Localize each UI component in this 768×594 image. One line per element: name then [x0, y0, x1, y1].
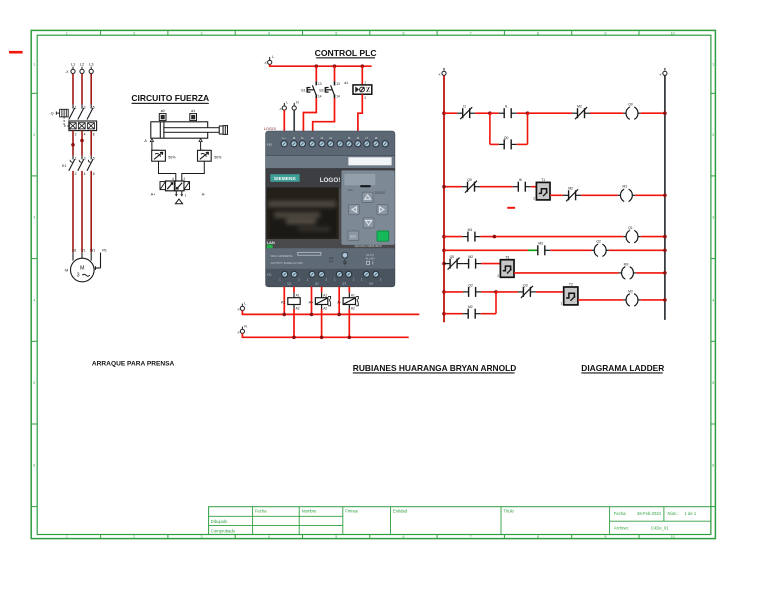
thermal pole numbers 2 4 6: [75, 132, 95, 136]
svg-text:I6: I6: [357, 136, 360, 140]
NO contact M1: [462, 232, 480, 242]
L rail junction Q2: [310, 313, 314, 317]
wire Q3.2 down: [348, 287, 350, 293]
contactor K1 pole 1: [69, 156, 75, 171]
svg-text:A2: A2: [296, 306, 300, 310]
wire pole1 mid: [72, 131, 74, 156]
svg-text:M2: M2: [468, 255, 473, 259]
bottom terminal 1-2 labels: [279, 277, 382, 281]
svg-text:M3: M3: [624, 262, 629, 266]
ladder left rail: [443, 75, 445, 322]
valve 5/2 right chamber: [175, 181, 184, 191]
coil Q1: [623, 230, 640, 242]
rung 1 wire e: [528, 112, 573, 114]
branch vertical right: [527, 113, 529, 144]
wire A+ to N rail: [321, 309, 323, 337]
pipe right to valve: [182, 161, 205, 181]
PLC top terminal screws: [281, 141, 388, 147]
svg-text:S1: S1: [301, 89, 306, 93]
contactor K1 pole 3: [87, 156, 93, 171]
wire N to M: [293, 110, 295, 131]
rung 6 wire d: [536, 291, 564, 293]
exhaust stub left: [175, 191, 178, 197]
branch wire b: [517, 143, 528, 145]
frame inner border: [37, 35, 711, 534]
rod end plate: [219, 126, 223, 134]
N rail junction A-: [348, 336, 352, 340]
rung 3 wire c: [641, 236, 665, 238]
wire K1 to N rail: [293, 309, 295, 337]
terminal L2: [80, 67, 84, 74]
wire Q2.2 down: [321, 287, 323, 293]
svg-text:I8: I8: [375, 136, 378, 140]
svg-text:LAN: LAN: [267, 240, 275, 245]
motor stub V1: [81, 252, 83, 258]
svg-text:Archivo:: Archivo:: [614, 526, 629, 531]
svg-text:6: 6: [403, 31, 405, 35]
junction a1 tap: [361, 64, 365, 68]
coil Q2: [592, 244, 609, 256]
rung 6 wire a: [444, 291, 463, 293]
svg-text:1: 1: [712, 62, 714, 66]
rung 5 wire b: [636, 272, 665, 274]
limit switch a1 glyphs: [356, 87, 370, 92]
coil Q0: [623, 107, 640, 119]
frame left zone ticks: [31, 93, 37, 506]
wire L2 drop: [81, 74, 83, 105]
svg-text:ESC: ESC: [350, 234, 357, 238]
svg-text:1: 1: [561, 301, 563, 305]
svg-text:M2: M2: [468, 305, 473, 309]
svg-text:7: 7: [470, 31, 472, 35]
rung 6 right junction: [663, 298, 667, 302]
svg-text:Q2: Q2: [596, 240, 601, 244]
svg-text:6: 6: [712, 464, 714, 468]
limit switch a1 box: [353, 85, 372, 94]
wire motor lead 3: [90, 171, 92, 252]
A+ coil top lead: [321, 293, 323, 298]
svg-text:5: 5: [712, 381, 714, 385]
svg-text:2: 2: [133, 31, 135, 35]
keypad window: [344, 173, 376, 186]
pushbutton S2: [325, 81, 334, 98]
svg-text:1: 1: [75, 156, 77, 160]
svg-text:N: N: [244, 324, 247, 328]
terminal L3: [89, 67, 93, 74]
svg-text:6: 6: [403, 535, 405, 539]
timer T3 box: [500, 260, 514, 278]
rung 2 wire a: [444, 186, 462, 188]
rung 1 left junction: [442, 111, 446, 115]
svg-text:2: 2: [75, 132, 77, 136]
svg-text:a1: a1: [344, 81, 348, 85]
PLC lower band: [266, 249, 395, 269]
svg-text:3: 3: [84, 156, 86, 160]
svg-text:2: 2: [33, 133, 35, 137]
svg-text:2: 2: [533, 197, 535, 201]
rung 4 left junction: [442, 249, 446, 253]
breaker Q actuator box: [56, 109, 68, 117]
coil M1: [618, 189, 635, 201]
MAC address bar: [298, 252, 321, 255]
underline DIAGRAMA LADDER: [581, 372, 662, 373]
svg-text:Núm.:: Núm.:: [668, 511, 679, 516]
rung 1 wire a: [444, 112, 457, 114]
NO contact M3 rung4: [537, 245, 551, 255]
rung 6 wire b: [481, 291, 496, 293]
svg-text:7: 7: [470, 535, 472, 539]
svg-text:13: 13: [318, 82, 322, 86]
terminal L rail: [240, 304, 244, 311]
svg-text:Q0: Q0: [467, 178, 472, 182]
rung 6 branch junction: [494, 290, 498, 294]
rung 6 left junction: [442, 290, 446, 294]
svg-text:Título: Título: [503, 509, 514, 514]
svg-text:2: 2: [712, 133, 714, 137]
rung 1 wire g: [641, 112, 665, 114]
svg-text:3: 3: [201, 31, 203, 35]
svg-text:Q0: Q0: [450, 255, 455, 259]
svg-text:X10: X10: [267, 143, 273, 147]
A- coil bottom lead: [348, 305, 350, 310]
motor terminal labels U1 V1 W1: [72, 249, 95, 253]
wire motor lead 1: [72, 171, 74, 252]
NO contact M2 rung5: [463, 259, 481, 269]
exhaust stub right: [180, 191, 183, 197]
pipe right down: [200, 142, 202, 151]
NC contact M2 rung1: [572, 107, 590, 119]
svg-text:Q3: Q3: [342, 281, 346, 285]
wire Q1.1 to L rail: [283, 287, 285, 315]
LCD streaks blurred: [268, 201, 336, 231]
breaker Q pole 3: [87, 105, 93, 120]
rung 6 wire out: [578, 299, 623, 301]
motor tilde: [82, 274, 90, 276]
rung 1 wire c: [490, 112, 499, 114]
wire pole3 mid: [90, 131, 92, 156]
N rail wire: [242, 333, 408, 337]
K1 coil top lead: [293, 293, 295, 298]
rung 3 right junction: [663, 235, 667, 239]
rung 7 wire a: [444, 313, 463, 315]
terminal N plc: [292, 103, 296, 110]
button down: [363, 218, 374, 228]
svg-text:Q3: Q3: [523, 283, 528, 287]
rung 2 right junction: [663, 194, 667, 198]
throttle valve right: [198, 150, 212, 161]
NO contact Q0 branch: [499, 139, 517, 149]
svg-text:A1: A1: [296, 293, 300, 297]
rung 2 wire b: [480, 186, 513, 188]
svg-text:T3: T3: [505, 255, 509, 259]
thermal element pole 2: [78, 123, 85, 129]
rung 4 right junction: [663, 249, 667, 253]
svg-text:L: L: [244, 301, 246, 305]
svg-text:5: 5: [33, 381, 35, 385]
svg-text:-Q: -Q: [50, 112, 54, 116]
svg-text:MAC ADDRESS:: MAC ADDRESS:: [271, 254, 294, 258]
breaker Q pole 1: [69, 105, 75, 120]
motor M circle: [71, 258, 95, 282]
rung 3 wire b: [480, 236, 623, 238]
NO contact I1: [499, 108, 517, 118]
coil M2: [623, 294, 640, 306]
terminal L control: [268, 57, 272, 65]
rung 7 left junction: [442, 312, 446, 316]
svg-text:6ED1052-1HB08-0BA8: 6ED1052-1HB08-0BA8: [355, 244, 382, 248]
throttle valve left: [152, 150, 166, 161]
PLC face dark photo area: [266, 168, 395, 248]
L rail wire: [242, 311, 419, 315]
pipe left down: [151, 142, 153, 151]
svg-text:-X: -X: [237, 330, 240, 334]
rung 7 vertical to rung 6: [495, 292, 497, 314]
LCD screen: [266, 187, 338, 239]
svg-text:3: 3: [33, 216, 35, 220]
svg-text:I3: I3: [321, 136, 324, 140]
rung 6 wire e: [641, 299, 665, 301]
timer T2 box: [564, 287, 578, 305]
rung 2 wire out: [550, 194, 563, 196]
svg-text:9: 9: [604, 535, 606, 539]
A+ valve pilot marks: [328, 296, 331, 305]
solenoid coil A-: [343, 298, 355, 305]
valve solenoid right: [184, 182, 190, 190]
svg-text:Entidad: Entidad: [393, 509, 408, 514]
contactor numbers 2 4 6: [75, 172, 95, 176]
svg-text:50%: 50%: [168, 155, 176, 159]
svg-text:Q2: Q2: [315, 281, 319, 285]
rung 3 wire a: [444, 236, 462, 238]
rung 2 wire d: [581, 194, 618, 196]
wire S1 to I1: [303, 98, 316, 131]
wire bus to S2: [334, 66, 336, 81]
ground symbol: [343, 259, 347, 265]
frame outer border: [31, 30, 715, 538]
N rail junction A+: [320, 336, 324, 340]
svg-text:C4De_01: C4De_01: [651, 526, 669, 531]
svg-text:LOGO!: LOGO!: [264, 127, 276, 131]
svg-text:M2: M2: [628, 289, 633, 293]
breaker linkage dashed: [64, 117, 69, 126]
svg-text:Q2: Q2: [468, 283, 473, 287]
K1 coil bottom lead: [293, 305, 295, 310]
svg-text:CONTROL PLC: CONTROL PLC: [315, 48, 377, 58]
svg-text:A2: A2: [351, 306, 355, 310]
terminal L1: [71, 67, 75, 74]
NO contact I6: [513, 182, 531, 192]
wire L3 drop: [90, 74, 92, 105]
underline RUBIANES: [353, 372, 515, 373]
rung 1 wire d: [517, 112, 528, 114]
svg-text:Q0: Q0: [504, 136, 509, 140]
title block labels: [211, 509, 697, 534]
svg-text:5: 5: [335, 535, 337, 539]
rung 4 wire a: [444, 249, 528, 251]
svg-text:L2: L2: [80, 61, 85, 66]
svg-text:I1: I1: [301, 136, 304, 140]
wire pole2 mid: [81, 131, 83, 156]
valve 5/2 left chamber: [166, 181, 175, 191]
svg-text:5: 5: [93, 156, 95, 160]
rung 2 wire c: [531, 186, 537, 188]
rung 2 wire e: [635, 194, 665, 196]
svg-text:K1: K1: [62, 164, 67, 168]
rung 1 wire b: [475, 112, 490, 114]
ladder right rail: [664, 75, 666, 320]
control supply bus: [270, 64, 372, 66]
svg-text:6: 6: [33, 464, 35, 468]
rung 3 left junction: [442, 235, 446, 239]
svg-text:RUBIANES HUARANGA BRYAN ARNOLD: RUBIANES HUARANGA BRYAN ARNOLD: [353, 363, 516, 373]
L rail junction Q3: [337, 313, 341, 317]
svg-text:1: 1: [185, 193, 187, 197]
svg-text:6: 6: [93, 172, 95, 176]
cylinder body: [151, 122, 208, 138]
svg-text:13: 13: [336, 82, 340, 86]
NC contact Q0 rung2: [462, 181, 480, 193]
svg-text:L: L: [272, 55, 274, 59]
svg-text:S2: S2: [319, 89, 324, 93]
FE screw: [342, 252, 348, 258]
relay Q labels: [287, 281, 373, 285]
svg-text:9: 9: [604, 31, 606, 35]
piston rod: [164, 128, 219, 133]
terminal N rail: [240, 327, 244, 334]
svg-text:3: 3: [84, 106, 86, 110]
svg-text:/E LAN: /E LAN: [366, 257, 375, 261]
svg-text:L1: L1: [71, 61, 76, 66]
S1 terminal numbers: [318, 82, 322, 98]
solenoid coil A+: [315, 298, 327, 305]
PLC top terminal labels: [282, 136, 377, 140]
svg-text:M2: M2: [568, 187, 573, 191]
bottom screw slots: [284, 273, 378, 275]
title block outline: [209, 507, 711, 535]
svg-text:10: 10: [671, 31, 675, 35]
wire bus to S1: [315, 66, 317, 81]
svg-text:K1: K1: [281, 300, 286, 304]
svg-text:-X: -X: [279, 107, 282, 111]
svg-text:3: 3: [712, 216, 714, 220]
svg-text:4: 4: [712, 298, 714, 302]
svg-text:1: 1: [33, 62, 35, 66]
PE conductor: [95, 253, 100, 270]
branch vertical left: [489, 113, 491, 144]
svg-text:Q1: Q1: [287, 281, 291, 285]
svg-text:LOGO!: LOGO!: [320, 177, 341, 184]
valve solenoid left: [160, 182, 166, 190]
N rail junction K1: [292, 336, 296, 340]
junction pole1: [71, 143, 75, 147]
svg-text:I2: I2: [311, 136, 314, 140]
svg-text:X12: X12: [329, 256, 334, 260]
wire Q3.1 to L rail: [338, 287, 340, 315]
LCD inner: [270, 202, 336, 238]
cylinder piston: [159, 122, 161, 138]
svg-text:W1: W1: [90, 249, 95, 253]
thermal element pole 1: [69, 123, 76, 129]
rung 3 mid junction: [493, 235, 497, 239]
svg-text:A+: A+: [151, 193, 157, 197]
thermal overload box: [69, 121, 97, 131]
junction pole2: [80, 139, 84, 143]
svg-text:I5: I5: [348, 136, 351, 140]
svg-text:1 de 1: 1 de 1: [685, 511, 697, 516]
svg-text:I6: I6: [519, 178, 522, 182]
wire Q1.2 down: [293, 287, 295, 293]
svg-text:50%: 50%: [214, 155, 222, 159]
svg-text:1: 1: [364, 81, 366, 85]
svg-text:24RCE: 24RCE: [375, 191, 387, 195]
svg-text:X11: X11: [267, 273, 272, 277]
tiny network icon: [367, 261, 373, 264]
S2 terminal numbers: [336, 82, 340, 98]
sensor a1: [190, 114, 197, 121]
coil M3: [619, 267, 636, 279]
rung 7 wire b: [481, 313, 496, 315]
svg-text:-M: -M: [64, 269, 68, 273]
rung 4 wire b: [550, 249, 591, 251]
svg-text:2: 2: [75, 172, 77, 176]
svg-text:L3: L3: [89, 61, 94, 66]
rung 1 wire f: [590, 112, 623, 114]
sensor a0: [159, 114, 166, 121]
frame zone number labels: [33, 31, 714, 539]
svg-text:2: 2: [364, 96, 366, 100]
keypad panel: [341, 170, 394, 245]
title underline: [132, 103, 209, 104]
svg-text:3F4: 3F4: [329, 259, 334, 263]
svg-text:4: 4: [33, 298, 35, 302]
wire Q2.1 to L rail: [311, 287, 313, 315]
svg-text:3: 3: [201, 535, 203, 539]
PLC face gradient top: [266, 168, 395, 188]
svg-text:A+: A+: [309, 300, 315, 304]
svg-text:10: 10: [671, 535, 675, 539]
keypad window slot: [360, 185, 371, 187]
svg-text:1: 1: [66, 535, 68, 539]
center tiny marks: [329, 256, 334, 264]
rung 1 branch junction left: [488, 111, 492, 115]
svg-text:4: 4: [268, 31, 270, 35]
rung 5 right junction: [663, 271, 667, 275]
terminal labels L1 L2 L3: [71, 61, 94, 66]
title block horizontal dividers: [209, 516, 711, 525]
svg-text:PE: PE: [102, 249, 107, 253]
L rail junction Q1: [283, 313, 287, 317]
svg-text:M2: M2: [577, 105, 582, 109]
svg-text:Q0: Q0: [628, 103, 633, 107]
svg-text:26-Feb-2024: 26-Feb-2024: [637, 511, 662, 516]
button left: [349, 204, 360, 214]
svg-text:I1: I1: [505, 105, 508, 109]
NC contact Q3: [518, 286, 536, 298]
wire bus to a1 switch: [361, 66, 363, 85]
A- valve pilot marks: [356, 296, 359, 305]
ladder right terminal: [663, 68, 667, 76]
breaker pole numbers 1 3 5: [75, 106, 95, 110]
valve chamber divider: [174, 181, 176, 191]
right tiny texts: [366, 253, 375, 261]
svg-text:CIRCUITO FUERZA: CIRCUITO FUERZA: [131, 93, 209, 103]
svg-text:A1: A1: [351, 293, 355, 297]
svg-text:M1: M1: [468, 228, 473, 232]
svg-text:5: 5: [335, 31, 337, 35]
svg-text:1: 1: [66, 31, 68, 35]
ladder left terminal: [442, 68, 446, 76]
contactor numbers 1 3 5: [75, 156, 95, 160]
